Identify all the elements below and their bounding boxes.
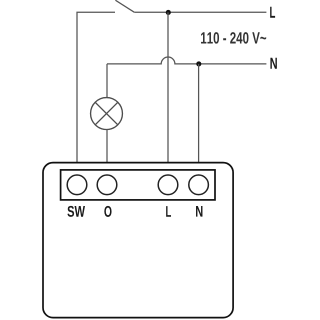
terminal O [97,175,117,195]
terminal L [158,175,178,195]
node: junction on N line [196,61,201,66]
lamp E1 [91,98,123,130]
wire: SW vertical riser with top-left corner [77,12,115,162]
wire: vertical from L junction to terminal L [167,12,169,162]
label SW [67,206,85,217]
label N (mains neutral) [270,58,276,69]
wire: L line top horizontal [134,11,266,13]
label voltage rating [201,32,266,44]
terminal N [189,175,209,195]
terminal SW [67,175,87,195]
switch S1 (lever, open) [115,0,134,12]
label O [104,206,111,217]
label L terminal [166,206,171,217]
terminal block [61,170,215,200]
device U1: relay module body [43,163,233,318]
wire: vertical from N junction to terminal N [198,64,200,163]
wire: lamp riser upper [106,64,108,98]
label L (mains live) [270,7,275,18]
wire: N line horizontal with hop over L riser [107,57,266,64]
label N terminal [196,206,202,217]
node: junction on L line [166,10,171,15]
wire: lamp riser lower to terminal O [106,130,108,163]
